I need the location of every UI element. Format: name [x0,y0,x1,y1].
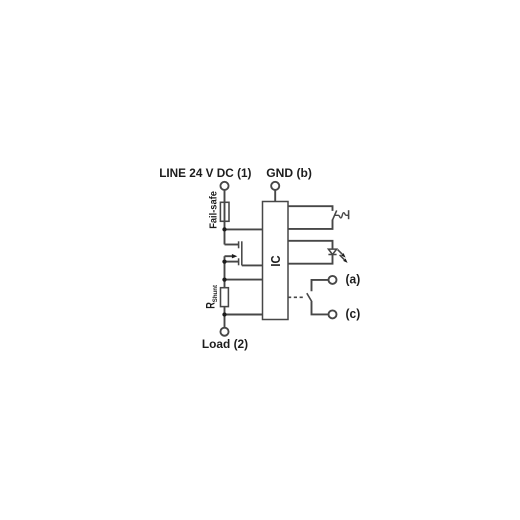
svg-text:Fail-safe: Fail-safe [208,191,219,229]
svg-text:Load (2): Load (2) [202,337,248,351]
svg-text:LINE 24 V DC (1): LINE 24 V DC (1) [159,166,251,180]
svg-text:GND (b): GND (b) [266,166,312,180]
svg-text:Shunt: Shunt [213,285,219,302]
svg-text:(c): (c) [346,307,361,321]
svg-text:IC: IC [269,255,283,266]
svg-text:(a): (a) [346,272,361,286]
